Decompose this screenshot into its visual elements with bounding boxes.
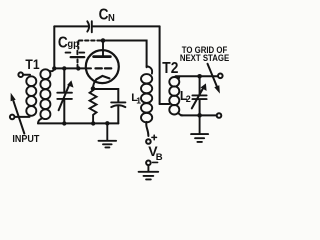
wire input bottom <box>15 116 30 118</box>
inductor L2 <box>169 77 179 114</box>
label VB <box>148 143 163 163</box>
wire cathode lead <box>93 79 96 88</box>
wire bypass cap to rail <box>117 106 119 124</box>
inductor L1 <box>141 66 152 122</box>
wire top C_N left segment <box>54 25 87 27</box>
capacitor T2 tuning variable <box>192 76 207 115</box>
wire T2 top <box>176 75 218 77</box>
resistor cathode bias <box>90 89 97 124</box>
label INPUT <box>12 133 39 145</box>
svg-text:NEXT STAGE: NEXT STAGE <box>180 52 230 63</box>
capacitor C_gp dashed lead lower <box>77 60 79 67</box>
ground VB <box>139 166 159 180</box>
terminal input top <box>18 72 23 77</box>
transformer T2 label <box>162 59 178 77</box>
capacitor cathode bypass <box>111 102 125 107</box>
arrow input <box>11 93 25 134</box>
svg-text:T1: T1 <box>25 56 39 72</box>
node tuning cap top <box>62 66 66 70</box>
wire L1 to VB plus <box>146 122 148 136</box>
wire grid <box>54 67 91 69</box>
transformer T1 secondary <box>40 69 50 119</box>
label minus <box>153 161 158 163</box>
svg-text:INPUT: INPUT <box>12 133 39 145</box>
capacitor C_gp plates <box>66 51 85 57</box>
wire CN right vertical <box>159 26 161 104</box>
svg-text:gp: gp <box>67 39 79 51</box>
label L1 <box>131 92 141 106</box>
wire stub to L2 tap <box>160 103 170 105</box>
wire T2 bottom <box>181 114 216 116</box>
capacitor C_N <box>87 21 92 32</box>
node cathode junction <box>91 86 96 91</box>
node tuning cap bottom <box>62 121 66 125</box>
capacitor C_gp dashed link horizontal <box>79 40 101 42</box>
node ground junction <box>105 121 109 125</box>
tube cathode filament <box>96 76 109 79</box>
node output cap top <box>197 74 202 79</box>
wire T1 secondary top curl <box>50 69 55 72</box>
svg-text:T2: T2 <box>162 59 178 77</box>
wire cathode to bypass cap <box>93 89 118 102</box>
svg-text:N: N <box>108 13 115 25</box>
label C_gp <box>58 35 79 52</box>
wire L2 top curl <box>176 76 179 78</box>
label C_N <box>99 6 115 24</box>
wire plate to T2 <box>103 41 147 68</box>
terminal VB plus <box>146 139 151 144</box>
tube grid dashes <box>96 67 112 69</box>
wire left rail grid-to-CN <box>53 26 55 68</box>
ground left <box>99 123 117 147</box>
label to grid of next stage <box>180 45 230 63</box>
node resistor bottom <box>91 121 95 125</box>
wire top C_N right segment <box>92 25 160 27</box>
svg-text:1: 1 <box>136 96 141 106</box>
tube V1 envelope <box>86 50 119 83</box>
terminal output top <box>218 74 223 79</box>
transformer T1 label <box>25 56 39 72</box>
wire T1 secondary bottom curl <box>38 119 42 124</box>
node plate junction <box>101 38 106 43</box>
svg-text:2: 2 <box>186 94 191 104</box>
node Cgp bottom <box>76 66 80 70</box>
capacitor C_gp dashed lead upper <box>77 41 79 49</box>
terminal input bottom <box>10 115 15 120</box>
label plus <box>152 135 157 140</box>
terminal VB minus <box>146 161 151 166</box>
svg-text:B: B <box>156 152 163 163</box>
node output cap bottom <box>197 113 202 118</box>
label L2 <box>180 89 191 104</box>
wire bottom rail <box>38 122 118 124</box>
ground T2 <box>191 115 208 142</box>
capacitor T1 tuning variable <box>57 68 73 123</box>
node grid junction <box>52 66 56 70</box>
terminal output bottom <box>217 113 222 118</box>
tube plate <box>94 41 111 57</box>
arrow to next stage <box>208 64 220 94</box>
transformer T1 primary <box>26 76 36 116</box>
wire input top <box>24 74 31 76</box>
wire L2 bottom curl <box>178 113 182 115</box>
